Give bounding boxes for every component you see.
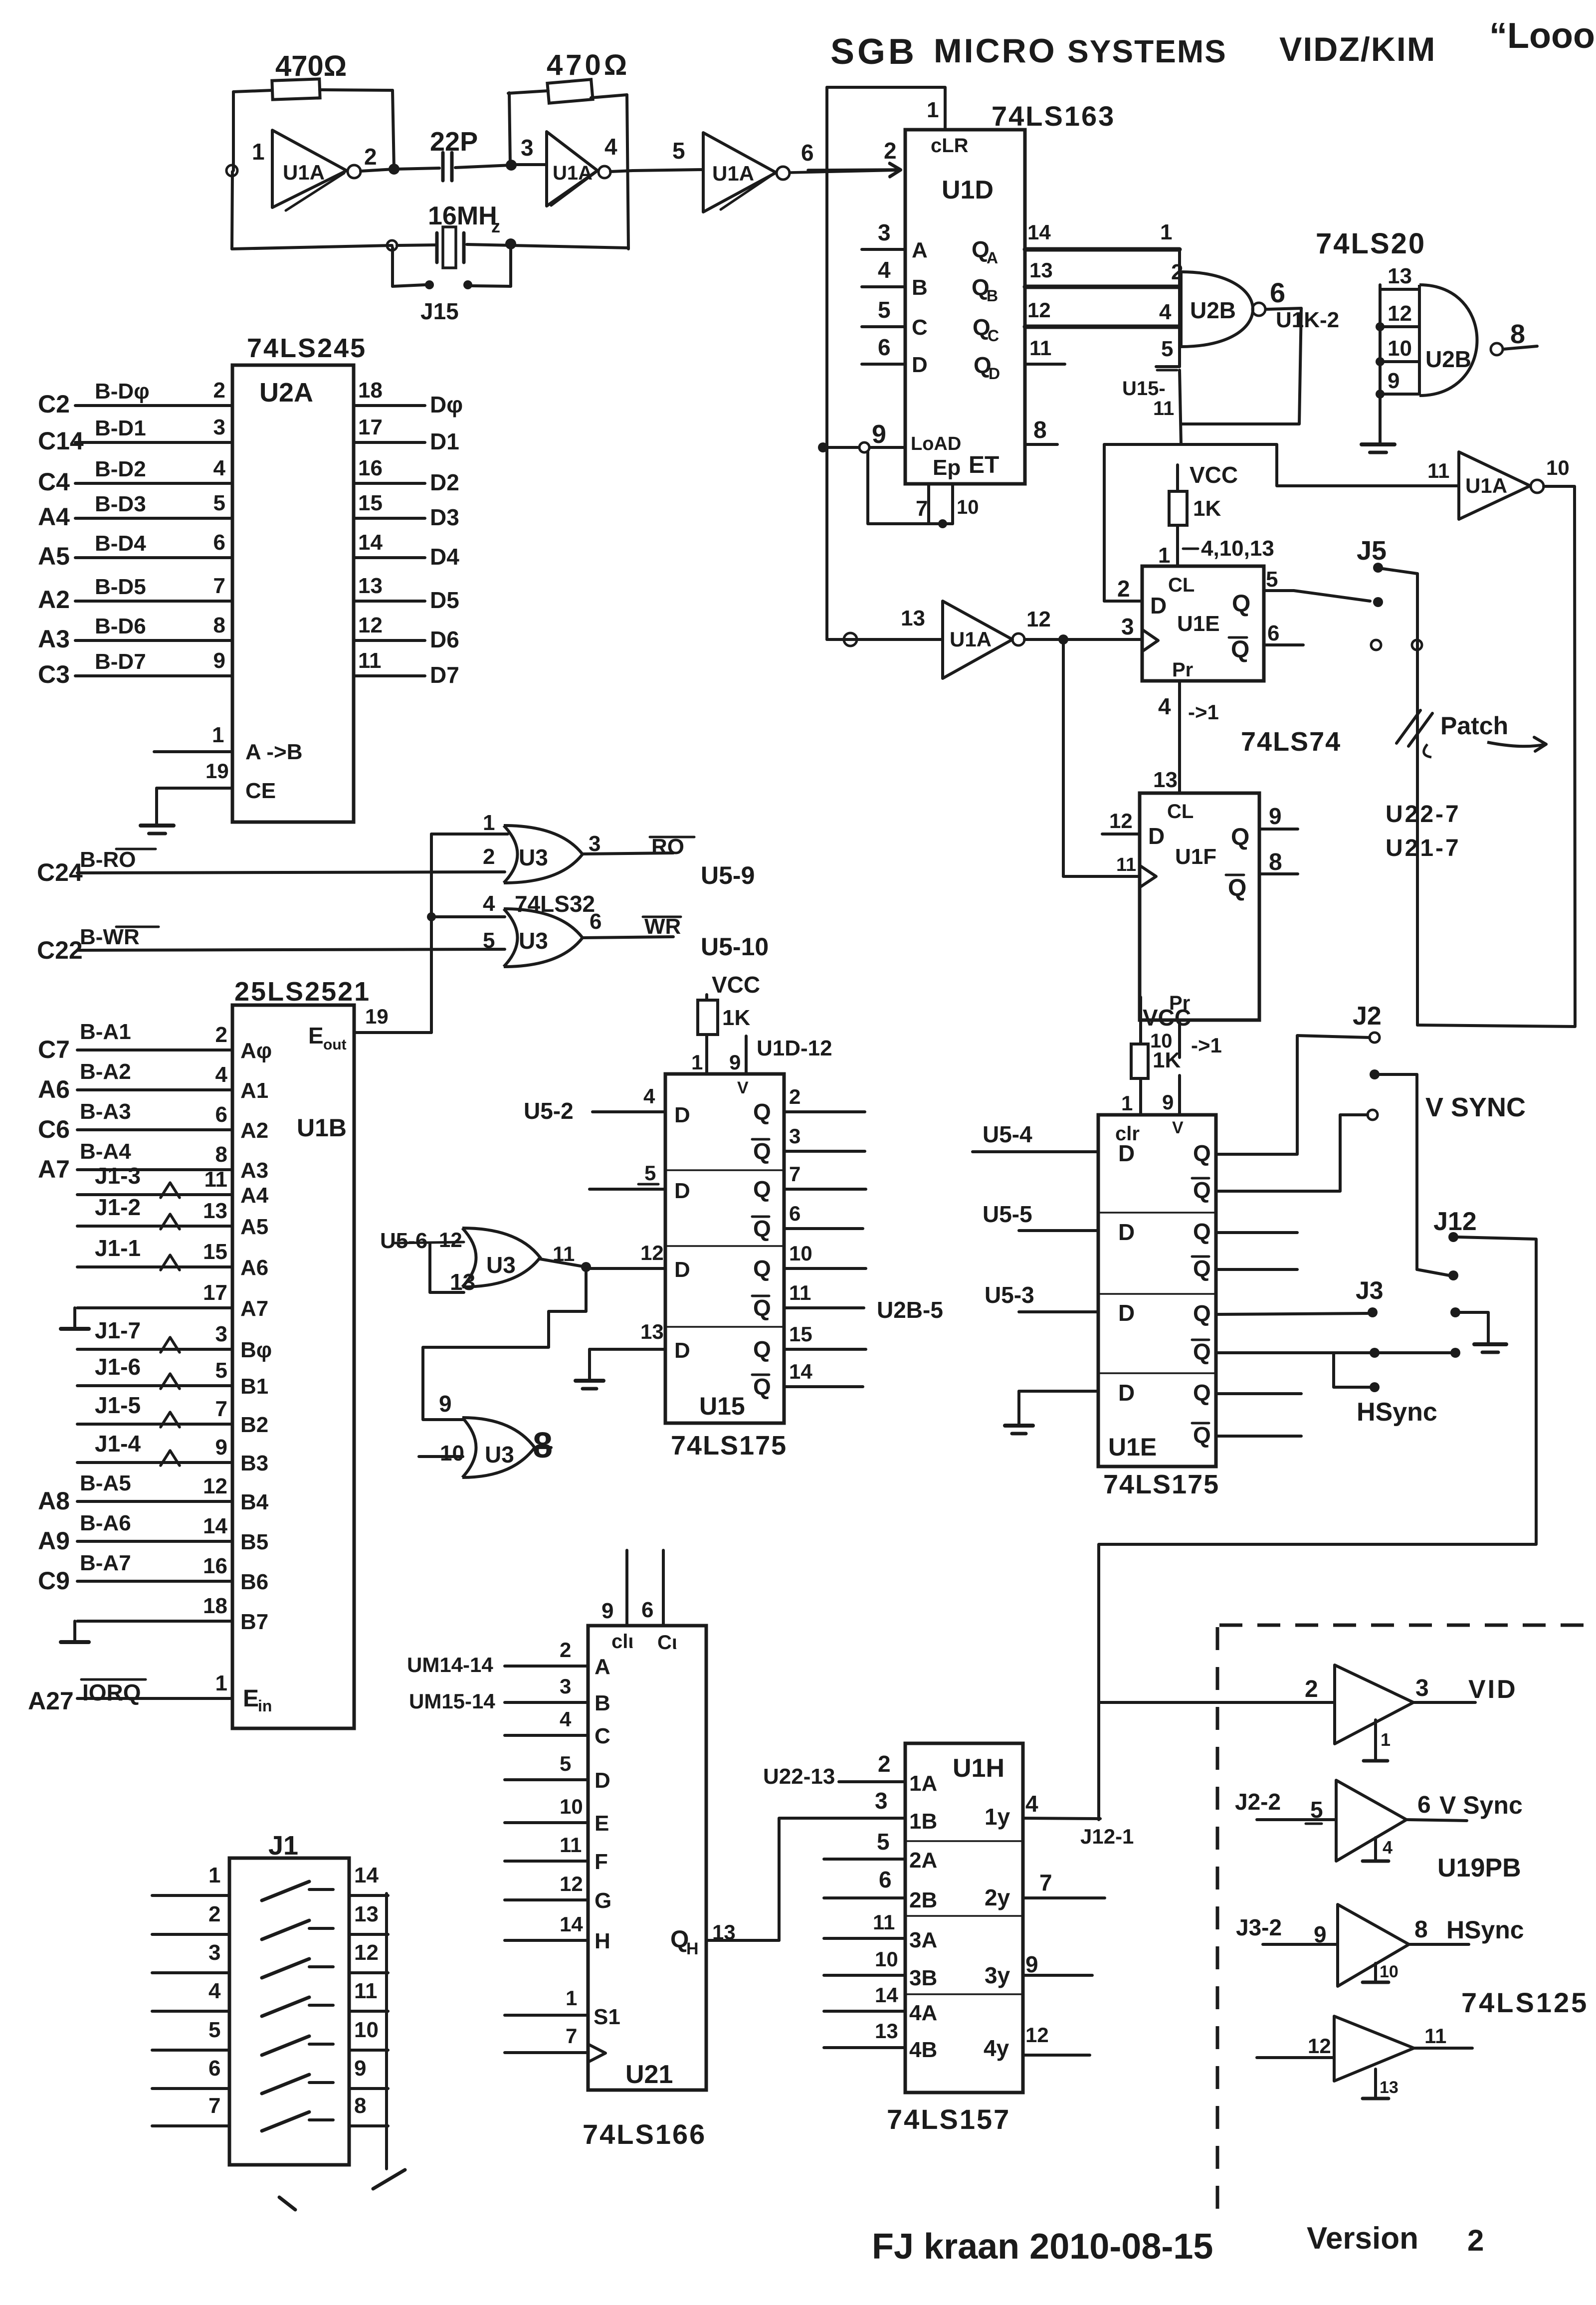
- wire buffer4 out: [1414, 2024, 1472, 2048]
- wire U1F Q pin9: [1259, 803, 1298, 829]
- wire U1D pins 7 10 tie: [868, 452, 979, 528]
- jumper J15 left drop: [393, 247, 425, 286]
- svg-text:2A: 2A: [909, 1848, 937, 1873]
- switch J1 row 4: [262, 1997, 333, 2016]
- node junction dot B: [506, 160, 517, 171]
- label U22-7: [1386, 801, 1461, 828]
- svg-text:D: D: [989, 365, 1000, 383]
- svg-text:2: 2: [215, 1023, 227, 1047]
- divider U1E175 2: [1098, 1293, 1216, 1295]
- svg-text:13: 13: [901, 606, 925, 630]
- jumper J15 right drop: [472, 246, 511, 286]
- title text Looo quoted: [1489, 16, 1596, 56]
- divider U1E175 1: [1098, 1212, 1216, 1214]
- wire U1D pin9 LOAD: [818, 420, 961, 454]
- svg-text:Q: Q: [753, 1176, 771, 1202]
- or-gate U3d: [462, 1418, 535, 1477]
- svg-text:Q: Q: [1232, 591, 1250, 617]
- svg-text:8: 8: [354, 2094, 366, 2118]
- svg-text:2: 2: [364, 144, 377, 170]
- svg-text:14: 14: [354, 1863, 379, 1887]
- IC U15 name: [671, 1392, 787, 1461]
- svg-text:H: H: [686, 1939, 699, 1958]
- wire 74LS20 stub 10: [1380, 336, 1419, 362]
- svg-text:1: 1: [1158, 543, 1170, 568]
- text Q glyph 2545: [1192, 1256, 1211, 1281]
- wire U21 S1: [505, 1986, 620, 2029]
- svg-text:7: 7: [215, 1397, 227, 1421]
- jumper HSYNC contact: [1370, 1382, 1380, 1392]
- jumper J12 label: [1433, 1207, 1477, 1236]
- svg-text:10: 10: [1380, 1962, 1398, 1981]
- wire U21 pin9 stub top: [601, 1550, 627, 1626]
- text Ep Et: [933, 452, 999, 480]
- svg-text:5: 5: [1161, 337, 1173, 361]
- svg-text:6: 6: [789, 1202, 800, 1225]
- svg-text:->1: ->1: [1191, 1034, 1222, 1057]
- svg-text:1: 1: [1160, 220, 1172, 244]
- IC 74LS74 label: [1241, 727, 1341, 757]
- wire cap right: [455, 165, 511, 168]
- wire R2 right: [591, 95, 627, 98]
- svg-text:13: 13: [875, 2019, 898, 2043]
- wire U21 input E: [505, 1795, 609, 1836]
- svg-text:V: V: [1172, 1118, 1184, 1137]
- svg-text:U1A: U1A: [1465, 474, 1507, 497]
- svg-text:1: 1: [566, 1986, 577, 2010]
- wire U1H 1Y out: [985, 1791, 1100, 1830]
- wire U15 out pin 2: [753, 1085, 865, 1125]
- wire R2 loop right vertical: [627, 95, 628, 249]
- svg-text:A3: A3: [240, 1158, 268, 1183]
- wire loop lower: [1104, 444, 1181, 601]
- svg-text:11: 11: [204, 1167, 227, 1192]
- svg-text:U19PB: U19PB: [1437, 1854, 1521, 1883]
- svg-text:16: 16: [203, 1554, 227, 1578]
- svg-text:8: 8: [213, 613, 225, 637]
- svg-text:6: 6: [213, 530, 225, 555]
- wire pullup to U15 pin1: [691, 1035, 707, 1074]
- wire U1B pin 18 B7: [61, 1594, 268, 1642]
- wire 74LS20 stub 12: [1380, 301, 1419, 327]
- svg-text:B-D4: B-D4: [95, 531, 146, 556]
- svg-text:Q: Q: [753, 1138, 771, 1164]
- svg-text:Q: Q: [753, 1099, 771, 1125]
- svg-text:V Sync: V Sync: [1439, 1791, 1523, 1819]
- wire U1H 4Y out: [984, 2023, 1090, 2061]
- IC U21 box: [588, 1626, 706, 2090]
- svg-text:12: 12: [439, 1228, 462, 1252]
- svg-text:16: 16: [358, 456, 383, 480]
- svg-text:2: 2: [213, 378, 225, 403]
- svg-text:B-D6: B-D6: [95, 614, 146, 638]
- svg-text:Patch: Patch: [1440, 712, 1508, 740]
- svg-text:UM14-14: UM14-14: [407, 1653, 493, 1676]
- svg-text:J1-7: J1-7: [95, 1317, 141, 1343]
- svg-text:CE: CE: [245, 779, 276, 803]
- svg-text:J12: J12: [1433, 1207, 1477, 1236]
- svg-text:CL: CL: [1167, 801, 1194, 823]
- wire Q3 to J3: [1216, 1276, 1384, 1314]
- svg-text:6: 6: [590, 909, 601, 934]
- wire R2 left: [508, 91, 548, 93]
- enable stub buffer2: [1363, 1837, 1393, 1861]
- svg-text:“Looo”: “Looo”: [1489, 16, 1596, 56]
- text Q glyph 2712: [1192, 1339, 1211, 1365]
- flip-flop U1F box: [1140, 793, 1259, 1020]
- svg-text:U1D-12: U1D-12: [757, 1036, 832, 1060]
- svg-text:LoAD: LoAD: [911, 433, 961, 454]
- IC U1B name: [297, 1114, 347, 1142]
- svg-text:16MH: 16MH: [428, 202, 497, 230]
- wire U1A5 out down right edge: [1575, 486, 1575, 1026]
- IC U21 name: [583, 2060, 706, 2150]
- wire U1B pin 4 A1: [38, 1059, 268, 1103]
- svg-text:5: 5: [560, 1752, 571, 1775]
- wire U1H 2B: [824, 1867, 937, 1912]
- wire J1 right bus: [385, 1893, 388, 2169]
- svg-text:CL: CL: [1168, 574, 1195, 596]
- svg-text:D: D: [674, 1257, 690, 1282]
- svg-text:1: 1: [1381, 1729, 1391, 1750]
- svg-text:U3: U3: [486, 1252, 516, 1278]
- svg-text:U2B-5: U2B-5: [877, 1297, 943, 1323]
- svg-text:3B: 3B: [909, 1966, 937, 1990]
- svg-text:J2: J2: [1353, 1002, 1382, 1031]
- svg-text:B-D5: B-D5: [95, 575, 146, 599]
- jumper J2 top contact: [1370, 1033, 1380, 1043]
- svg-text:B6: B6: [240, 1570, 268, 1594]
- label J12-1: [1080, 1825, 1134, 1848]
- svg-text:Q: Q: [1193, 1380, 1211, 1406]
- svg-text:U1E: U1E: [1108, 1433, 1157, 1461]
- wire D1 from U5-4: [973, 1121, 1135, 1166]
- wire D4 grounded: [1005, 1380, 1135, 1434]
- pin 4 label: [604, 134, 617, 160]
- wire pullup to pin1: [1121, 1078, 1141, 1115]
- wire U1D QA thick: [972, 220, 1180, 267]
- enable stub buffer3: [1363, 1962, 1398, 1982]
- svg-text:A6: A6: [240, 1256, 268, 1280]
- wire U2A pin 4 B-D2: [38, 456, 232, 496]
- svg-text:1: 1: [927, 98, 939, 122]
- svg-text:A2: A2: [240, 1118, 268, 1143]
- wire U1D QB thick: [972, 258, 1183, 305]
- svg-text:74LS163: 74LS163: [992, 100, 1115, 132]
- wire U1B pin 11 A4: [77, 1163, 269, 1208]
- wire oscillator bottom rail left: [232, 245, 392, 249]
- svg-text:Q: Q: [1193, 1140, 1211, 1166]
- svg-text:E: E: [308, 1023, 324, 1048]
- IC U1H name: [953, 1754, 1004, 1783]
- text U1D clr: [931, 135, 969, 157]
- label U1D-12: [757, 1036, 832, 1060]
- svg-text:A ->B: A ->B: [245, 740, 303, 764]
- svg-text:J2-2: J2-2: [1235, 1789, 1281, 1815]
- svg-text:V: V: [737, 1078, 749, 1097]
- svg-text:5: 5: [213, 491, 225, 515]
- svg-text:13: 13: [450, 1269, 475, 1295]
- svg-text:UM15-14: UM15-14: [409, 1689, 495, 1713]
- wire Qbar1 to J2 bottom: [1216, 1115, 1368, 1191]
- wire QH up to U1H 1B: [779, 1818, 905, 1940]
- wire U2A out Dφ: [354, 378, 463, 418]
- wire U1B pin 2 Aφ: [38, 1020, 272, 1063]
- pin 3 label: [521, 135, 534, 161]
- signature text: [872, 2227, 1213, 2267]
- svg-text:470Ω: 470Ω: [547, 49, 630, 81]
- pin 1 label: [252, 139, 265, 165]
- divider U15 3: [665, 1326, 784, 1328]
- wire U1H 4B: [824, 2019, 937, 2062]
- svg-text:J1-1: J1-1: [95, 1235, 141, 1261]
- IC U1D box: [905, 130, 1025, 484]
- svg-text:A5: A5: [240, 1215, 268, 1239]
- svg-text:13: 13: [203, 1199, 227, 1223]
- clock notch U1F: [1140, 865, 1156, 887]
- wire U1B pin 15 A6: [77, 1235, 268, 1280]
- wire U15 out pin 6: [752, 1202, 863, 1242]
- switch J1 row 2: [262, 1920, 333, 1939]
- label U1K-2: [1276, 308, 1339, 332]
- svg-text:2B: 2B: [909, 1888, 937, 1912]
- wire U1A5 out: [1544, 456, 1574, 486]
- svg-text:12: 12: [358, 613, 383, 637]
- svg-text:2: 2: [208, 1902, 220, 1926]
- svg-text:C: C: [988, 327, 999, 345]
- wire U1H 2A: [824, 1829, 937, 1873]
- wire pin5 drop: [1180, 370, 1181, 444]
- svg-text:18: 18: [203, 1594, 227, 1618]
- pin labels U1A4: [901, 606, 1051, 631]
- wire U2A pin 3 B-D1: [38, 415, 232, 455]
- svg-text:B-RO: B-RO: [80, 847, 136, 872]
- wire U15 out pin 10: [753, 1242, 866, 1281]
- power VCC pullup U1E74: [1169, 462, 1238, 525]
- wire VID buffer input: [1099, 1676, 1335, 1702]
- svg-text:8: 8: [215, 1142, 227, 1167]
- capacitor C 22p: [430, 127, 478, 181]
- svg-text:7: 7: [213, 574, 225, 598]
- wire U15 out pin 15: [753, 1322, 866, 1362]
- svg-text:C4: C4: [38, 468, 70, 496]
- svg-text:B-Dφ: B-Dφ: [95, 379, 150, 404]
- svg-text:9: 9: [1162, 1090, 1174, 1114]
- wire branch to U1A5: [1181, 444, 1459, 486]
- svg-text:19: 19: [205, 759, 229, 783]
- svg-text:U3: U3: [519, 928, 548, 954]
- wire U2A pin 19 CE: [157, 759, 276, 824]
- wire Q2 stub: [1216, 1231, 1297, 1234]
- svg-text:A4: A4: [38, 503, 70, 531]
- pin labels U3b: [483, 891, 601, 953]
- power VCC pullup U15: [698, 972, 760, 1035]
- svg-text:13: 13: [1380, 2078, 1398, 2097]
- svg-text:C9: C9: [38, 1567, 70, 1595]
- svg-text:MICRO: MICRO: [934, 32, 1057, 70]
- svg-text:5: 5: [878, 297, 891, 323]
- svg-text:4: 4: [604, 134, 617, 160]
- svg-text:U15-: U15-: [1122, 378, 1166, 400]
- svg-text:B-A2: B-A2: [80, 1059, 131, 1084]
- inverter U1A second: [547, 132, 610, 206]
- pin 6 label: [801, 140, 814, 166]
- svg-text:D: D: [1118, 1380, 1135, 1406]
- svg-text:4: 4: [1159, 300, 1172, 324]
- svg-text:D1: D1: [430, 428, 459, 454]
- svg-text:->1: ->1: [1188, 700, 1219, 724]
- svg-text:1: 1: [1121, 1091, 1133, 1115]
- IC U1B box: [232, 1005, 354, 1728]
- wire U3b input4: [431, 915, 505, 918]
- svg-text:9: 9: [439, 1391, 452, 1417]
- svg-text:ET: ET: [969, 452, 999, 478]
- wire U2A pin 7 B-D5: [38, 574, 232, 614]
- svg-text:B3: B3: [240, 1451, 268, 1475]
- svg-text:4,10,13: 4,10,13: [1201, 536, 1274, 561]
- jumper J2 bottom contact: [1368, 1110, 1378, 1120]
- switch J1 row 5: [262, 2036, 333, 2055]
- svg-text:A7: A7: [240, 1296, 268, 1321]
- svg-text:C: C: [912, 315, 928, 340]
- svg-text:10: 10: [1546, 456, 1570, 479]
- wire U1B pin 3 Bφ: [77, 1317, 272, 1362]
- svg-text:D6: D6: [430, 627, 459, 652]
- svg-text:4A: 4A: [909, 2001, 937, 2025]
- nand-gate U2B second: [1419, 285, 1503, 396]
- svg-text:D: D: [674, 1338, 690, 1363]
- svg-text:Q: Q: [753, 1336, 771, 1362]
- switch J1 row 1: [262, 1882, 333, 1900]
- svg-text:A5: A5: [38, 542, 70, 570]
- svg-text:2y: 2y: [985, 1885, 1010, 1910]
- divider U15 2: [665, 1245, 784, 1247]
- IC U1B 25LS2521 label: [234, 977, 371, 1007]
- svg-text:2: 2: [878, 1751, 891, 1777]
- wire U1A1 out: [361, 169, 394, 171]
- dashed boundary horizontal: [1219, 1624, 1594, 1627]
- wire pullup to U1E pin1: [1158, 525, 1274, 568]
- svg-text:1: 1: [215, 1671, 227, 1695]
- jumper J12 contact1: [1448, 1232, 1458, 1242]
- svg-text:9: 9: [1388, 369, 1399, 393]
- wire U2A out D7: [354, 648, 459, 688]
- svg-text:15: 15: [203, 1240, 227, 1264]
- svg-text:Version: Version: [1307, 2221, 1418, 2256]
- svg-text:J1-4: J1-4: [95, 1431, 141, 1457]
- svg-text:HSync: HSync: [1357, 1398, 1437, 1427]
- svg-text:1K: 1K: [1193, 496, 1221, 521]
- svg-text:9: 9: [1269, 803, 1282, 829]
- wire U1F D pin12: [1102, 809, 1140, 834]
- pin labels U3a: [483, 811, 600, 869]
- svg-text:11: 11: [1424, 2024, 1446, 2048]
- wire Qbar2 stub: [1216, 1268, 1297, 1271]
- wire J12 to far right vertical: [1458, 1237, 1535, 1239]
- wire U15 out pin 11: [752, 1281, 864, 1321]
- svg-text:Ep: Ep: [933, 455, 961, 480]
- svg-text:2: 2: [1305, 1676, 1318, 1702]
- svg-text:15: 15: [358, 491, 383, 515]
- svg-text:12: 12: [1308, 2034, 1331, 2058]
- svg-text:3: 3: [213, 415, 225, 439]
- wire D2 from U5-5: [983, 1201, 1135, 1245]
- svg-text:4: 4: [213, 456, 226, 480]
- patch text: [1440, 712, 1508, 740]
- svg-text:in: in: [258, 1697, 272, 1715]
- wire U3b out WR: [583, 914, 769, 961]
- wire U1D input B: [862, 257, 928, 300]
- svg-text:14: 14: [789, 1360, 812, 1383]
- IC U1D name: [942, 176, 994, 205]
- wire U2A out D1: [354, 415, 459, 454]
- wire U1D input D: [862, 334, 928, 377]
- svg-text:7: 7: [208, 2094, 220, 2118]
- svg-text:U1A: U1A: [950, 628, 992, 651]
- svg-text:J1-3: J1-3: [95, 1163, 141, 1189]
- svg-text:U22-7: U22-7: [1386, 801, 1461, 828]
- wire J1 row 7: [152, 2094, 388, 2126]
- svg-text:3: 3: [1121, 614, 1134, 639]
- svg-text:J1-6: J1-6: [95, 1354, 141, 1380]
- IC U3 74LS32 label: [515, 891, 595, 917]
- svg-text:13: 13: [354, 1902, 379, 1926]
- svg-text:10: 10: [440, 1441, 464, 1466]
- svg-text:4y: 4y: [984, 2035, 1009, 2061]
- wire U3c pin13 loop: [430, 1244, 475, 1295]
- wire 74LS20 input bus: [1379, 285, 1382, 443]
- svg-text:10: 10: [354, 2018, 379, 2042]
- wire Q4 stub: [1216, 1392, 1301, 1395]
- svg-text:B: B: [987, 287, 998, 305]
- wire pin5 stub: [1156, 337, 1180, 370]
- svg-text:3y: 3y: [985, 1962, 1010, 1988]
- svg-text:3A: 3A: [909, 1928, 937, 1952]
- svg-text:8: 8: [1510, 319, 1525, 349]
- svg-text:12: 12: [560, 1872, 583, 1895]
- svg-text:D: D: [1118, 1300, 1135, 1326]
- svg-text:E: E: [243, 1685, 259, 1712]
- jumper J3 top contact: [1368, 1307, 1378, 1317]
- label U21-7: [1386, 835, 1461, 861]
- text Q glyph 2794: [1193, 1380, 1211, 1406]
- power VCC pullup U1E175: [1131, 997, 1191, 1078]
- patch arrow: [1487, 737, 1546, 751]
- wire J1 bus end tick: [373, 2170, 405, 2189]
- svg-text:5: 5: [1266, 567, 1278, 592]
- wire U3d out pin8: [533, 1426, 553, 1466]
- svg-text:74LS245: 74LS245: [247, 333, 367, 363]
- node rail dot right: [505, 238, 516, 249]
- svg-text:B: B: [595, 1691, 610, 1715]
- svg-text:10: 10: [957, 496, 979, 518]
- svg-text:Bφ: Bφ: [240, 1338, 272, 1362]
- svg-text:U1K-2: U1K-2: [1276, 308, 1339, 332]
- wire 74LS20 stub 9: [1380, 369, 1419, 394]
- divider U1H 3: [905, 1993, 1023, 1995]
- jumper J15 right contact: [463, 280, 472, 289]
- svg-text:4: 4: [643, 1084, 655, 1108]
- svg-text:2: 2: [789, 1085, 800, 1108]
- jumper J15 left contact: [425, 280, 434, 289]
- svg-text:2: 2: [884, 138, 897, 164]
- node junction U3c out: [581, 1262, 591, 1272]
- text Q glyph 2314: [1193, 1140, 1211, 1166]
- wire U21 QH out: [670, 1920, 779, 1958]
- crystal X1 16MHz: [428, 202, 500, 268]
- svg-text:11: 11: [560, 1833, 582, 1857]
- svg-text:J3-2: J3-2: [1236, 1914, 1282, 1940]
